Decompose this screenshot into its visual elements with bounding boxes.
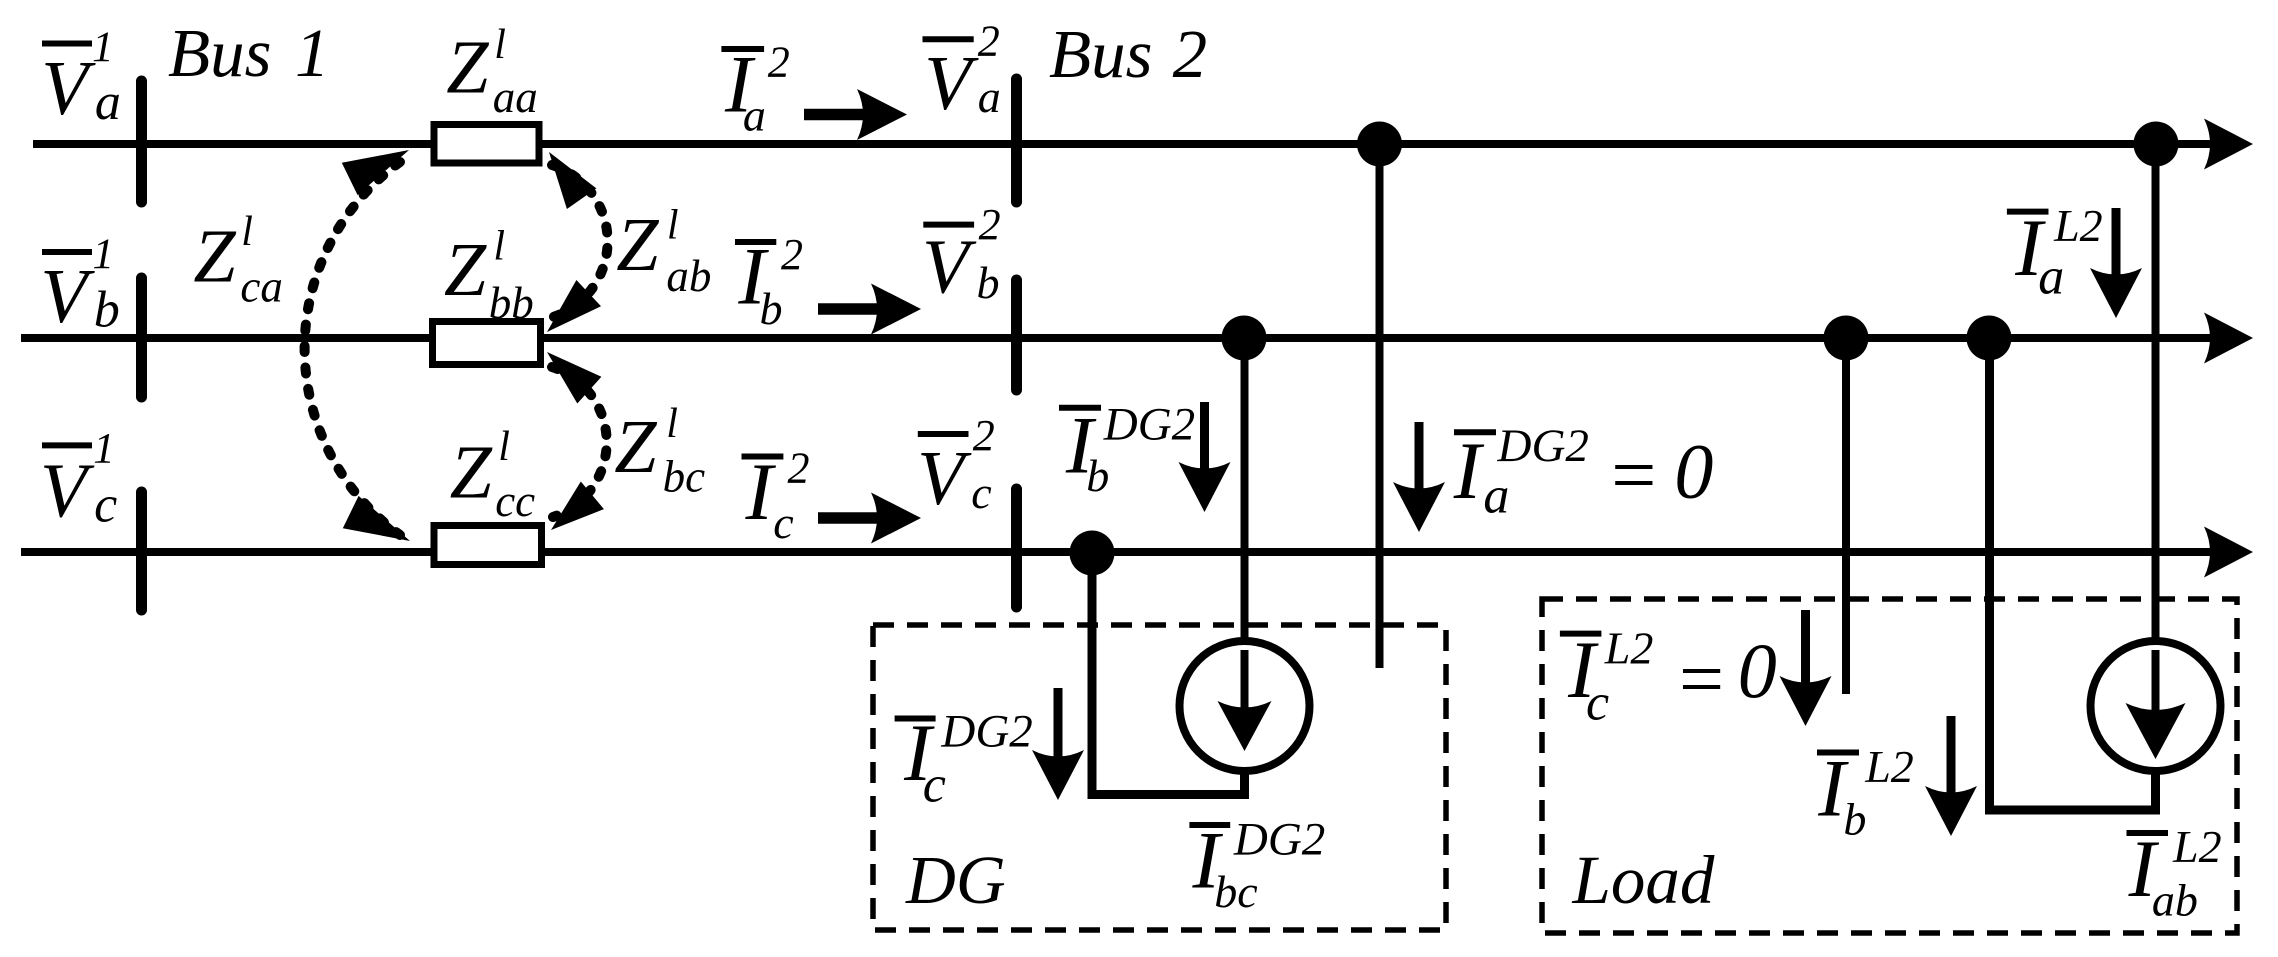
arrowhead Z_bc arc bottom (into R_cc) xyxy=(551,482,604,531)
svg-text:a: a xyxy=(2038,248,2064,305)
svg-text:Z: Z xyxy=(193,215,236,299)
svg-text:DG: DG xyxy=(905,842,1006,918)
svg-text:1: 1 xyxy=(93,425,115,472)
label V_c^1 xyxy=(40,425,117,533)
arrow for I_c^DG2 xyxy=(1054,688,1063,762)
svg-text:2: 2 xyxy=(979,200,1001,249)
svg-text:L2: L2 xyxy=(2053,200,2103,251)
svg-text:Z: Z xyxy=(446,26,489,110)
Load block dashed box xyxy=(1542,599,2237,933)
current arrow I_a^2 (phase a toward Bus 2) xyxy=(804,109,867,121)
Bus 1 bar phase a xyxy=(136,81,147,202)
label DG xyxy=(905,842,1006,918)
arrowhead phase c right end xyxy=(2204,527,2253,578)
node: junction phase c / DG branch c xyxy=(1070,531,1115,576)
label Z_bc^l xyxy=(614,401,705,502)
label I_bc^DG2 xyxy=(1189,813,1325,917)
svg-text:2: 2 xyxy=(973,411,995,460)
svg-text:b: b xyxy=(94,281,120,338)
current arrow I_c^2 (phase c toward Bus 2) xyxy=(818,512,881,524)
svg-text:ab: ab xyxy=(666,251,711,301)
svg-text:a: a xyxy=(1483,468,1509,525)
svg-text:ab: ab xyxy=(2152,874,2198,925)
svg-text:c: c xyxy=(94,476,117,533)
arrowhead phase a right end xyxy=(2204,119,2253,170)
svg-text:1: 1 xyxy=(92,24,114,71)
svg-text:l: l xyxy=(494,22,506,68)
svg-text:2: 2 xyxy=(788,443,810,492)
svg-text:aa: aa xyxy=(493,72,538,122)
svg-text:bc: bc xyxy=(663,451,706,501)
svg-text:a: a xyxy=(978,71,1001,122)
arrow for I_a^L2 xyxy=(2112,208,2121,280)
label Load xyxy=(1572,842,1715,918)
svg-text:2: 2 xyxy=(978,17,1000,66)
svg-text:V: V xyxy=(40,253,95,339)
svg-text:L2: L2 xyxy=(1604,623,1654,674)
current arrow I_b^2 (phase b toward Bus 2) xyxy=(818,303,881,315)
svg-text:l: l xyxy=(667,203,679,249)
arrowhead Z_ab arc bottom (into R_bb) xyxy=(547,280,601,332)
arrowhead phase b right end xyxy=(2204,313,2253,364)
svg-text:Load: Load xyxy=(1572,842,1715,918)
svg-text:a: a xyxy=(95,74,121,131)
svg-text:a: a xyxy=(743,90,766,141)
node: junction phase b / Load branch b xyxy=(1967,316,2012,361)
svg-text:Bus: Bus xyxy=(168,15,272,91)
svg-text:bc: bc xyxy=(1214,866,1257,917)
svg-text:I: I xyxy=(1453,425,1485,516)
svg-text:c: c xyxy=(923,757,946,814)
Bus 2 bar phase c xyxy=(1011,489,1022,607)
Bus 1 bar phase b xyxy=(136,278,147,397)
svg-text:0: 0 xyxy=(1674,428,1713,515)
wire DG branch b (phase b down into DG source) xyxy=(1241,338,1249,646)
svg-text:l: l xyxy=(666,401,678,447)
label I_ab^L2 xyxy=(2127,821,2222,925)
svg-text:0: 0 xyxy=(1738,627,1777,714)
svg-text:2: 2 xyxy=(781,230,803,279)
svg-text:l: l xyxy=(493,223,505,269)
Bus 2 bar phase a xyxy=(1011,79,1022,202)
mutual impedance Z_bc dashed arc xyxy=(552,367,607,517)
arrow inside DG current source xyxy=(1241,650,1249,712)
label I_a^DG2 = 0 xyxy=(1453,420,1714,525)
wire DG branch c (phase c down, along bottom to DG source) xyxy=(1092,553,1245,795)
label I_c^DG2 xyxy=(895,706,1033,814)
label I_c^2 xyxy=(742,443,810,548)
svg-text:1: 1 xyxy=(93,231,115,278)
arrowhead Z_bc arc top (into R_bb) xyxy=(547,352,601,404)
wire phase a (Bus 1 to Bus 2 to loads) xyxy=(33,140,2214,148)
svg-text:l: l xyxy=(241,209,253,255)
svg-text:b: b xyxy=(1843,794,1866,845)
wire DG branch a (I_a^DG2=0 stub) xyxy=(1376,144,1384,668)
svg-text:L2: L2 xyxy=(2172,821,2222,872)
svg-text:b: b xyxy=(1086,450,1109,501)
wire Load branch b (phase b down, along bottom to Load source) xyxy=(1990,338,2156,810)
resistor Z_aa (series line impedance, phase a) xyxy=(434,125,539,164)
label I_a^2 xyxy=(721,38,789,141)
svg-text:DG2: DG2 xyxy=(1103,398,1195,450)
svg-text:Bus: Bus xyxy=(1049,16,1153,92)
svg-text:bb: bb xyxy=(489,278,534,328)
label V_b^1 xyxy=(40,231,119,339)
wire Load branch a (phase a down into Load source) xyxy=(2152,144,2160,646)
svg-text:Z: Z xyxy=(444,228,487,312)
svg-text:L2: L2 xyxy=(1864,741,1914,792)
label I_b^2 xyxy=(735,230,803,334)
svg-text:I: I xyxy=(745,446,777,537)
svg-text:c: c xyxy=(773,497,793,548)
label Z_bb^l xyxy=(444,223,534,328)
arrow for I_b^DG2 xyxy=(1200,402,1209,474)
node: junction phase b / DG branch b xyxy=(1222,316,1267,361)
arrow inside Load current source xyxy=(2152,650,2160,716)
mutual impedance Z_ca dashed arc xyxy=(305,162,400,535)
label Bus 2 xyxy=(1049,16,1207,92)
DG block dashed box xyxy=(873,625,1446,930)
svg-text:=: = xyxy=(1674,636,1728,724)
Bus 1 bar phase c xyxy=(136,492,147,610)
arrow for I_b^L2 xyxy=(1947,716,1956,798)
label I_c^L2 = 0 xyxy=(1560,623,1777,732)
Bus 2 bar phase b xyxy=(1011,280,1022,390)
svg-text:c: c xyxy=(1586,674,1609,731)
svg-text:c: c xyxy=(971,467,991,518)
svg-text:b: b xyxy=(760,283,783,334)
svg-text:b: b xyxy=(977,257,1000,308)
label Z_aa^l xyxy=(446,22,538,122)
svg-text:DG2: DG2 xyxy=(1497,420,1589,472)
label V_a^2 xyxy=(923,17,1001,127)
svg-text:2: 2 xyxy=(768,38,790,87)
label Z_ab^l xyxy=(616,203,711,301)
label Z_cc^l xyxy=(450,424,536,526)
node: junction phase a / DG branch a xyxy=(1357,122,1402,167)
arrowhead Z_ca arc bottom (into phase c) xyxy=(343,496,410,541)
label V_a^1 (Bus 1 phase a voltage) xyxy=(41,24,121,131)
svg-text:DG2: DG2 xyxy=(1233,813,1325,865)
resistor Z_cc (series line impedance, phase c) xyxy=(434,526,542,565)
wire phase b xyxy=(21,334,2214,342)
svg-text:DG2: DG2 xyxy=(940,706,1032,758)
svg-text:Z: Z xyxy=(450,430,493,514)
svg-text:V: V xyxy=(922,223,977,309)
svg-text:cc: cc xyxy=(495,476,535,526)
current source I_bc^DG2 (DG, circle symbol) xyxy=(1180,641,1310,771)
wire Load branch c (I_c^L2=0 stub) xyxy=(1842,338,1850,694)
arrow for I_c^L2=0 xyxy=(1801,610,1810,688)
svg-text:ca: ca xyxy=(240,261,282,311)
svg-text:Z: Z xyxy=(616,203,659,287)
label I_b^L2 xyxy=(1817,741,1914,845)
label I_a^L2 xyxy=(2007,200,2103,306)
label Z_ca^l xyxy=(193,209,282,311)
arrow for I_a^DG2=0 xyxy=(1415,422,1424,494)
label V_b^2 xyxy=(922,200,1001,309)
arrowhead Z_ab arc top (into R_aa) xyxy=(549,152,596,209)
svg-text:=: = xyxy=(1606,432,1660,520)
svg-text:1: 1 xyxy=(295,15,330,91)
wire phase c xyxy=(21,548,2214,556)
svg-text:2: 2 xyxy=(1173,16,1208,92)
svg-text:V: V xyxy=(41,45,96,131)
node: junction phase a / Load branch a xyxy=(2134,122,2179,167)
label V_c^2 xyxy=(917,411,995,521)
mutual impedance Z_ab dashed arc xyxy=(550,165,608,318)
svg-text:l: l xyxy=(498,424,510,470)
svg-text:V: V xyxy=(40,448,95,534)
label I_b^DG2 xyxy=(1059,398,1195,501)
label Bus 1 xyxy=(168,15,330,91)
current source I_ab^L2 (Load, circle symbol) xyxy=(2091,641,2221,771)
node: junction phase b / Load branch c xyxy=(1824,316,1869,361)
svg-text:V: V xyxy=(924,40,979,126)
resistor Z_bb (series line impedance, phase b) xyxy=(433,322,541,365)
arrowhead Z_ca arc top (into phase a) xyxy=(342,150,409,195)
svg-text:V: V xyxy=(917,435,972,521)
svg-text:Z: Z xyxy=(614,405,657,489)
